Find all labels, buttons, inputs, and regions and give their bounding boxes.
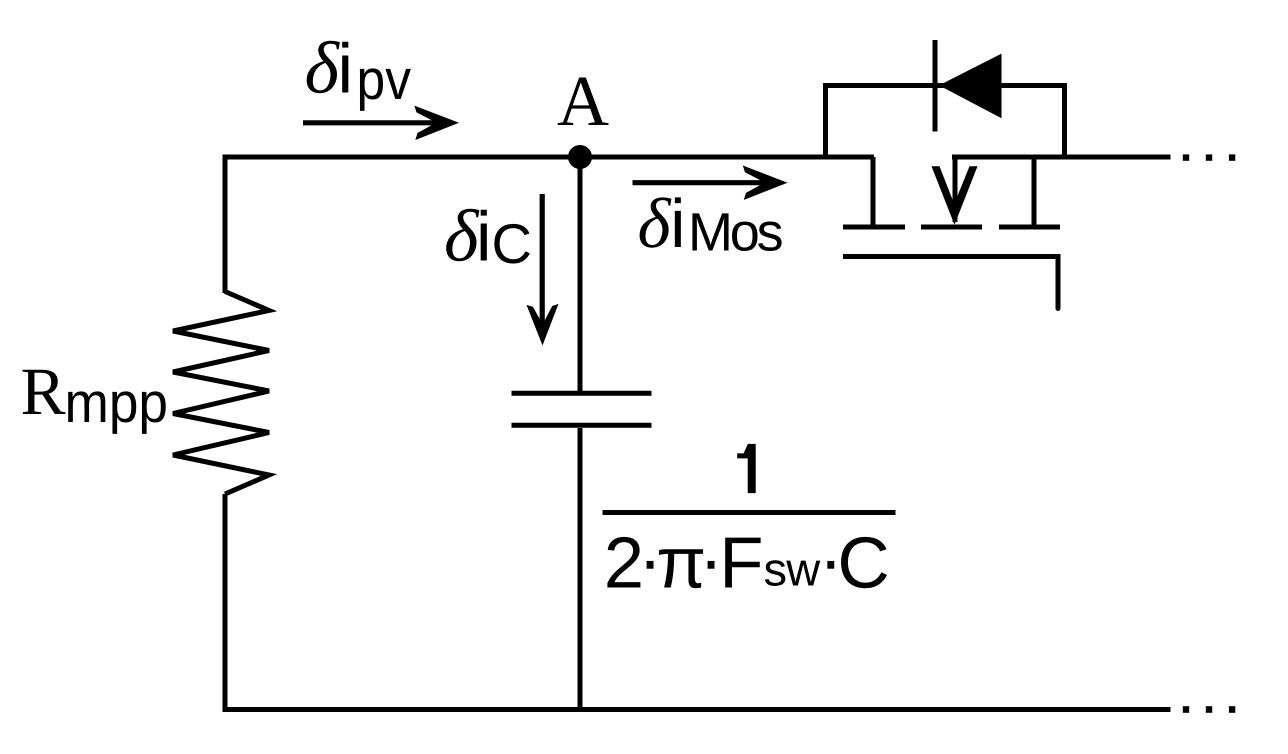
transistor body contact bar bbox=[921, 225, 982, 230]
svg-text:C: C bbox=[837, 523, 889, 604]
dots top right bbox=[1183, 154, 1189, 160]
transistor body arrow line bbox=[953, 157, 958, 222]
wire node A to capacitor bbox=[578, 157, 583, 391]
body diode triangle bbox=[939, 54, 1002, 119]
transistor drain contact bar bbox=[999, 225, 1060, 230]
svg-text:R: R bbox=[21, 354, 66, 429]
body diode left leg bbox=[823, 83, 828, 160]
svg-text:F: F bbox=[719, 523, 763, 604]
wire left vertical upper bbox=[223, 155, 228, 294]
svg-text:C: C bbox=[492, 212, 532, 275]
svg-text:i: i bbox=[670, 185, 685, 262]
svg-text:w: w bbox=[785, 543, 821, 596]
wire top horizontal bbox=[223, 155, 875, 160]
transistor gate bbox=[843, 254, 1061, 259]
body diode right leg bbox=[1062, 83, 1067, 160]
resistor Rmpp zigzag bbox=[173, 292, 269, 495]
capacitor C bottom plate bbox=[512, 423, 652, 428]
svg-text:s: s bbox=[764, 543, 788, 596]
transistor source contact bar bbox=[843, 225, 905, 230]
formula fraction bar bbox=[603, 510, 896, 515]
current arrow iMos head bbox=[743, 166, 788, 200]
wire right horizontal bbox=[952, 155, 1171, 160]
node A dot bbox=[568, 145, 592, 169]
transistor source stub bbox=[871, 157, 876, 225]
svg-text:Mos: Mos bbox=[688, 203, 783, 263]
svg-text:mpp: mpp bbox=[65, 371, 169, 435]
svg-text:i: i bbox=[338, 30, 354, 108]
formula numerator 1 bbox=[737, 444, 756, 493]
wire bottom horizontal bbox=[223, 707, 1171, 712]
svg-text:A: A bbox=[557, 61, 609, 141]
dots bottom right bbox=[1183, 706, 1189, 713]
svg-text:pv: pv bbox=[357, 48, 412, 112]
svg-text:δ: δ bbox=[638, 185, 672, 263]
wire left vertical lower bbox=[223, 494, 228, 712]
body diode cathode bar bbox=[933, 40, 938, 132]
svg-text:δ: δ bbox=[444, 196, 480, 278]
wire capacitor to bottom bbox=[578, 428, 583, 712]
transistor body arrow head bbox=[932, 166, 978, 224]
current arrow ipv line bbox=[303, 120, 436, 125]
svg-text:i: i bbox=[476, 198, 492, 276]
current arrow ipv head bbox=[414, 106, 459, 140]
current arrow iMos line bbox=[633, 180, 767, 185]
transistor drain stub bbox=[1032, 157, 1037, 225]
svg-text:δ: δ bbox=[305, 28, 341, 110]
current arrow iC line bbox=[540, 194, 545, 338]
body diode top wire bbox=[823, 83, 1067, 88]
current arrow iC head bbox=[527, 304, 559, 346]
capacitor C top plate bbox=[512, 391, 652, 396]
